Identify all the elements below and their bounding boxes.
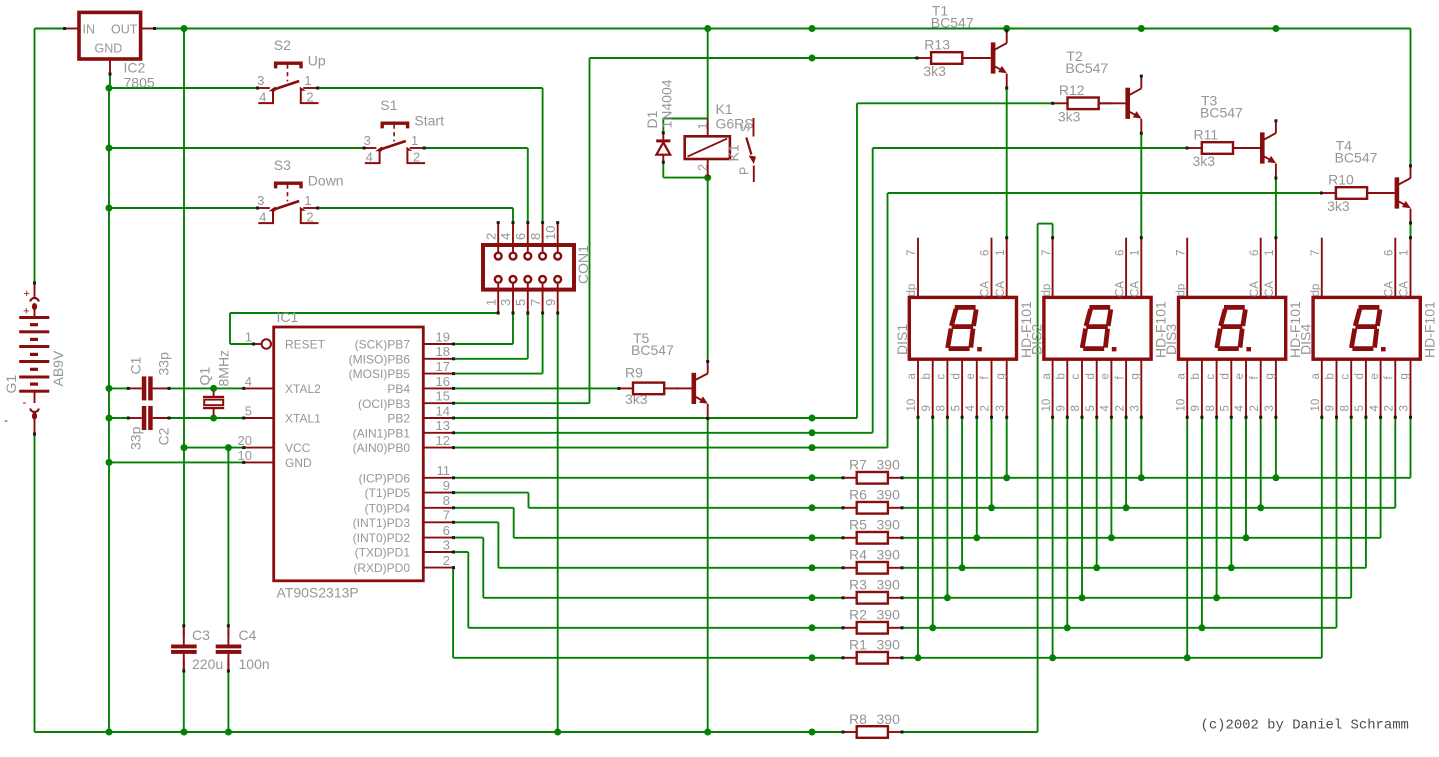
svg-text:C2: C2 — [156, 427, 172, 445]
svg-text:2: 2 — [483, 233, 498, 240]
svg-text:e: e — [1100, 373, 1112, 379]
svg-text:6: 6 — [513, 233, 528, 240]
svg-text:a: a — [906, 373, 918, 380]
svg-text:S: S — [739, 124, 753, 132]
svg-text:P: P — [738, 167, 752, 175]
svg-text:R8: R8 — [849, 711, 867, 727]
svg-text:Down: Down — [308, 172, 344, 188]
svg-text:3: 3 — [1264, 405, 1276, 411]
svg-text:c: c — [1339, 374, 1351, 380]
svg-text:+: + — [24, 288, 30, 300]
svg-text:9: 9 — [1325, 405, 1337, 411]
svg-text:8: 8 — [528, 233, 543, 240]
svg-text:9: 9 — [543, 299, 558, 306]
svg-text:1: 1 — [995, 250, 1007, 256]
svg-text:CON1: CON1 — [575, 245, 591, 284]
svg-text:BC547: BC547 — [631, 342, 674, 358]
svg-text:9: 9 — [1190, 405, 1202, 411]
svg-text:390: 390 — [877, 711, 901, 727]
svg-text:4: 4 — [965, 405, 977, 412]
svg-text:6: 6 — [1384, 250, 1396, 256]
svg-text:4: 4 — [366, 149, 373, 164]
svg-text:(INT0)PD2: (INT0)PD2 — [353, 531, 411, 545]
svg-text:5: 5 — [513, 299, 528, 306]
svg-text:R5: R5 — [849, 517, 867, 533]
svg-text:(T0)PD4: (T0)PD4 — [365, 501, 411, 515]
svg-text:3: 3 — [257, 193, 264, 208]
svg-text:R11: R11 — [1194, 127, 1219, 143]
svg-text:c: c — [936, 374, 948, 380]
svg-text:a: a — [1310, 373, 1322, 380]
svg-text:dp: dp — [906, 284, 918, 297]
svg-text:2: 2 — [413, 149, 420, 164]
svg-text:DIS3: DIS3 — [1163, 324, 1179, 355]
svg-text:g: g — [1130, 373, 1142, 379]
svg-text:11: 11 — [437, 463, 451, 478]
svg-text:C3: C3 — [192, 627, 210, 643]
svg-text:BC547: BC547 — [1335, 150, 1378, 166]
svg-text:1: 1 — [1264, 250, 1276, 256]
svg-text:8: 8 — [443, 493, 450, 508]
svg-text:1: 1 — [483, 299, 498, 306]
svg-text:CA: CA — [1114, 281, 1126, 297]
svg-text:S3: S3 — [274, 157, 291, 173]
svg-text:R3: R3 — [849, 577, 867, 593]
svg-text:7: 7 — [1310, 250, 1322, 256]
svg-text:b: b — [1056, 373, 1068, 379]
svg-text:dp: dp — [1310, 284, 1322, 297]
svg-text:5: 5 — [1220, 405, 1232, 411]
svg-text:1: 1 — [411, 133, 418, 148]
svg-text:(T1)PD5: (T1)PD5 — [365, 486, 411, 500]
svg-text:BC547: BC547 — [1200, 105, 1243, 121]
svg-text:CA: CA — [1264, 281, 1276, 297]
svg-text:R13: R13 — [924, 37, 950, 53]
svg-text:g: g — [1264, 373, 1276, 379]
svg-text:7805: 7805 — [124, 75, 155, 91]
svg-text:33p: 33p — [128, 426, 144, 450]
svg-text:GND: GND — [285, 456, 312, 470]
svg-text:17: 17 — [436, 359, 450, 374]
svg-text:18: 18 — [436, 344, 450, 359]
svg-text:DIS1: DIS1 — [894, 324, 910, 355]
svg-text:20: 20 — [238, 433, 252, 448]
svg-text:3: 3 — [443, 537, 450, 552]
svg-text:15: 15 — [436, 389, 450, 404]
svg-text:390: 390 — [877, 577, 901, 593]
svg-text:IC2: IC2 — [124, 60, 146, 76]
svg-text:1N4004: 1N4004 — [659, 79, 675, 128]
svg-text:K1: K1 — [716, 101, 733, 117]
svg-text:390: 390 — [877, 487, 901, 503]
svg-text:7: 7 — [1175, 250, 1187, 256]
svg-text:AB9V: AB9V — [50, 350, 66, 386]
svg-text:3: 3 — [995, 405, 1007, 411]
svg-text:4: 4 — [259, 89, 266, 104]
svg-text:5: 5 — [1354, 405, 1366, 411]
svg-text:Start: Start — [414, 112, 444, 128]
svg-text:d: d — [1354, 373, 1366, 379]
svg-text:3k3: 3k3 — [923, 63, 946, 79]
svg-text:2: 2 — [1114, 405, 1126, 411]
svg-text:PB2: PB2 — [387, 412, 410, 426]
svg-text:(MOSI)PB5: (MOSI)PB5 — [349, 367, 411, 381]
svg-text:2: 2 — [696, 164, 710, 171]
svg-text:(RXD)PD0: (RXD)PD0 — [353, 561, 410, 575]
svg-text:3: 3 — [1399, 405, 1411, 411]
svg-text:Q1: Q1 — [197, 367, 213, 386]
svg-text:G1: G1 — [3, 375, 19, 394]
svg-text:IN: IN — [83, 22, 96, 36]
svg-text:AT90S2313P: AT90S2313P — [277, 585, 359, 601]
svg-text:2: 2 — [980, 405, 992, 411]
svg-text:9: 9 — [921, 405, 933, 411]
svg-text:12: 12 — [436, 433, 450, 448]
svg-text:dp: dp — [1175, 284, 1187, 297]
svg-text:(SCK)PB7: (SCK)PB7 — [355, 338, 411, 352]
svg-text:6: 6 — [980, 250, 992, 256]
svg-text:(INT1)PD3: (INT1)PD3 — [353, 516, 411, 530]
svg-text:7: 7 — [443, 508, 450, 523]
svg-text:CA: CA — [1249, 281, 1261, 297]
svg-text:4: 4 — [259, 209, 266, 224]
svg-text:d: d — [950, 373, 962, 379]
svg-text:2: 2 — [1384, 405, 1396, 411]
svg-text:VCC: VCC — [285, 441, 311, 455]
svg-text:19: 19 — [436, 329, 450, 344]
svg-text:7: 7 — [528, 299, 543, 306]
svg-text:1: 1 — [696, 123, 710, 130]
svg-text:8: 8 — [1070, 405, 1082, 411]
svg-text:IC1: IC1 — [277, 309, 299, 325]
svg-text:-: - — [23, 395, 27, 409]
svg-text:4: 4 — [245, 374, 252, 389]
svg-text:PB4: PB4 — [387, 382, 410, 396]
svg-text:1: 1 — [304, 193, 311, 208]
svg-text:e: e — [965, 373, 977, 379]
svg-text:3: 3 — [1130, 405, 1142, 411]
svg-text:CA: CA — [995, 281, 1007, 297]
svg-text:10: 10 — [1310, 399, 1322, 412]
svg-text:e: e — [1234, 373, 1246, 379]
svg-text:a: a — [1041, 373, 1053, 380]
svg-text:HD-F101: HD-F101 — [1422, 301, 1438, 358]
svg-text:8: 8 — [1205, 405, 1217, 411]
svg-text:7: 7 — [1041, 250, 1053, 256]
svg-text:8: 8 — [1339, 405, 1351, 411]
svg-text:220u: 220u — [192, 656, 223, 672]
svg-text:390: 390 — [877, 547, 901, 563]
svg-text:RESET: RESET — [285, 338, 326, 352]
svg-text:10: 10 — [238, 448, 252, 463]
svg-text:R1: R1 — [849, 637, 867, 653]
svg-text:8MHz: 8MHz — [216, 350, 232, 387]
svg-text:10: 10 — [906, 399, 918, 412]
svg-text:8: 8 — [936, 405, 948, 411]
svg-text:390: 390 — [877, 457, 901, 473]
svg-text:OUT: OUT — [111, 22, 138, 36]
svg-text:10: 10 — [1175, 399, 1187, 412]
svg-text:2: 2 — [443, 553, 450, 568]
svg-text:S1: S1 — [380, 97, 397, 113]
svg-text:dp: dp — [1041, 284, 1053, 297]
svg-text:BC547: BC547 — [931, 15, 974, 31]
svg-text:1: 1 — [245, 330, 252, 345]
svg-text:3k3: 3k3 — [1058, 108, 1081, 124]
svg-text:3: 3 — [498, 299, 513, 306]
svg-text:(OCI)PB3: (OCI)PB3 — [358, 397, 410, 411]
svg-text:10: 10 — [1041, 399, 1053, 412]
svg-text:XTAL1: XTAL1 — [285, 412, 321, 426]
svg-text:7: 7 — [906, 250, 918, 256]
svg-text:3: 3 — [364, 133, 371, 148]
svg-text:(ICP)PD6: (ICP)PD6 — [359, 471, 411, 485]
svg-text:c: c — [1205, 374, 1217, 380]
svg-text:g: g — [1399, 373, 1411, 379]
svg-text:9: 9 — [443, 478, 450, 493]
svg-text:R2: R2 — [849, 607, 867, 623]
svg-text:d: d — [1085, 373, 1097, 379]
svg-text:1: 1 — [1130, 250, 1142, 256]
svg-text:4: 4 — [1234, 405, 1246, 412]
svg-text:390: 390 — [877, 517, 901, 533]
svg-text:16: 16 — [436, 374, 450, 389]
svg-text:g: g — [995, 373, 1007, 379]
svg-text:2: 2 — [306, 89, 313, 104]
svg-text:R6: R6 — [849, 487, 867, 503]
svg-text:3: 3 — [257, 73, 264, 88]
svg-text:(MISO)PB6: (MISO)PB6 — [349, 352, 411, 366]
svg-text:(c)2002 by Daniel Schramm: (c)2002 by Daniel Schramm — [1201, 718, 1409, 734]
svg-text:XTAL2: XTAL2 — [285, 382, 321, 396]
svg-text:R10: R10 — [1328, 172, 1354, 188]
svg-text:390: 390 — [877, 607, 901, 623]
svg-text:+: + — [23, 306, 29, 318]
svg-text:c: c — [1070, 374, 1082, 380]
svg-text:DIS2: DIS2 — [1028, 324, 1044, 355]
svg-text:CA: CA — [1130, 281, 1142, 297]
svg-text:3k3: 3k3 — [1327, 198, 1350, 214]
svg-text:-: - — [4, 413, 8, 427]
svg-text:d: d — [1220, 373, 1232, 379]
svg-text:9: 9 — [1056, 405, 1068, 411]
svg-text:5: 5 — [245, 404, 252, 419]
svg-text:13: 13 — [436, 418, 450, 433]
svg-text:4: 4 — [498, 233, 513, 240]
svg-text:(AIN1)PB1: (AIN1)PB1 — [353, 426, 411, 440]
svg-text:R9: R9 — [625, 364, 643, 380]
svg-text:a: a — [1175, 373, 1187, 380]
svg-text:5: 5 — [1085, 405, 1097, 411]
svg-text:6: 6 — [1249, 250, 1261, 256]
svg-text:R7: R7 — [849, 457, 867, 473]
svg-text:6: 6 — [443, 523, 450, 538]
svg-text:3k3: 3k3 — [1193, 153, 1216, 169]
svg-text:DIS4: DIS4 — [1298, 324, 1314, 355]
svg-text:1: 1 — [304, 73, 311, 88]
svg-text:BC547: BC547 — [1065, 60, 1108, 76]
svg-text:100n: 100n — [239, 656, 270, 672]
svg-text:5: 5 — [950, 405, 962, 411]
svg-text:10: 10 — [543, 226, 558, 240]
svg-text:4: 4 — [1369, 405, 1381, 412]
svg-text:Up: Up — [308, 52, 326, 68]
svg-text:C1: C1 — [128, 356, 144, 374]
svg-text:CA: CA — [980, 281, 992, 297]
svg-text:33p: 33p — [156, 352, 172, 376]
svg-text:2: 2 — [1249, 405, 1261, 411]
svg-text:2: 2 — [306, 209, 313, 224]
svg-text:4: 4 — [1100, 405, 1112, 412]
svg-text:390: 390 — [877, 637, 901, 653]
svg-text:R4: R4 — [849, 547, 867, 563]
svg-text:CA: CA — [1384, 281, 1396, 297]
svg-text:C4: C4 — [239, 627, 257, 643]
svg-text:(TXD)PD1: (TXD)PD1 — [355, 546, 411, 560]
svg-text:b: b — [1325, 373, 1337, 379]
svg-text:CA: CA — [1399, 281, 1411, 297]
svg-text:b: b — [921, 373, 933, 379]
svg-text:1: 1 — [1399, 250, 1411, 256]
svg-text:b: b — [1190, 373, 1202, 379]
svg-text:K1: K1 — [726, 144, 742, 161]
svg-text:GND: GND — [95, 42, 123, 56]
svg-text:6: 6 — [1114, 250, 1126, 256]
svg-text:(AIN0)PB0: (AIN0)PB0 — [353, 441, 411, 455]
svg-text:R12: R12 — [1059, 82, 1085, 98]
svg-text:e: e — [1369, 373, 1381, 379]
svg-text:S2: S2 — [274, 37, 291, 53]
svg-text:14: 14 — [436, 403, 450, 418]
